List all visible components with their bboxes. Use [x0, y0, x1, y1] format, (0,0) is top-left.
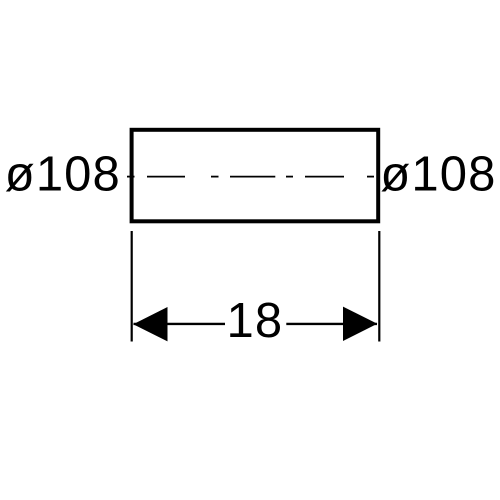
left arrowhead: [133, 307, 167, 341]
svg-text:ø108: ø108: [5, 147, 121, 201]
cylinder body outline (side view rectangle): [132, 130, 379, 222]
centerline dot 2: [286, 176, 293, 178]
left extension line: [131, 231, 133, 342]
centerline short dash at right: [367, 176, 374, 178]
right arrowhead: [343, 307, 377, 341]
centerline long dash 1: [147, 176, 185, 178]
dimension line left segment: [134, 323, 226, 325]
svg-text:ø108: ø108: [380, 147, 496, 201]
dimension line right segment: [286, 323, 377, 325]
centerline dot 1: [211, 176, 219, 178]
centerline long dash 3: [305, 176, 344, 178]
right extension line: [378, 231, 380, 342]
centerline long dash 2: [230, 176, 275, 178]
centerline dash crossing left edge: [127, 176, 135, 178]
svg-text:18: 18: [227, 294, 284, 348]
